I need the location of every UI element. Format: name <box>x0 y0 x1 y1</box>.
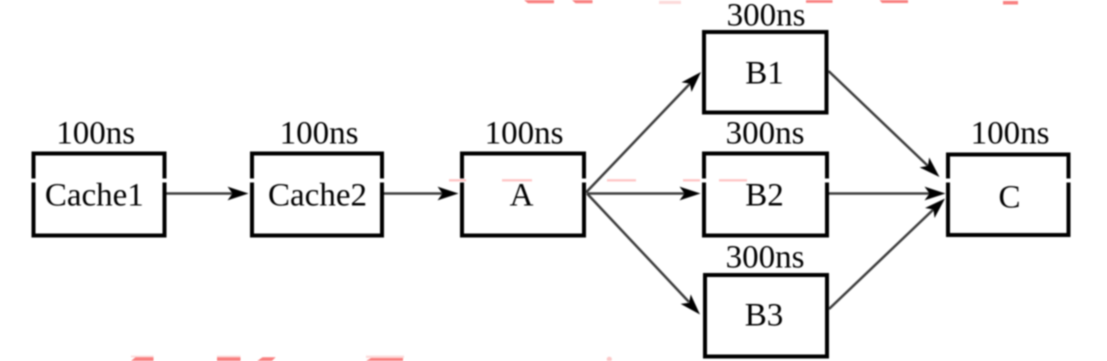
svg-text:A: A <box>510 178 534 214</box>
svg-text:100ns: 100ns <box>971 116 1050 152</box>
svg-text:B1: B1 <box>745 56 784 92</box>
red watermark fragments bottom edge <box>131 356 612 361</box>
svg-text:Cache1: Cache1 <box>45 178 144 214</box>
box C <box>948 155 1069 236</box>
svg-text:300ns: 300ns <box>726 116 805 152</box>
red watermark fragments top edge <box>524 0 1018 5</box>
arrow A to B2 <box>587 192 687 195</box>
svg-text:Cache2: Cache2 <box>268 178 367 214</box>
box Cache2 <box>252 154 382 236</box>
arrow B3 to C <box>829 210 933 310</box>
pink dashed strike line <box>449 179 747 181</box>
svg-text:100ns: 100ns <box>56 116 135 152</box>
box Cache1 <box>34 154 165 236</box>
arrow A to B1 <box>586 84 690 193</box>
arrow A to B3 <box>587 194 689 303</box>
box B2 <box>704 154 827 236</box>
svg-text:300ns: 300ns <box>727 0 806 34</box>
box B1 <box>704 32 827 113</box>
svg-text:100ns: 100ns <box>280 116 359 152</box>
svg-text:B3: B3 <box>745 298 784 334</box>
border gaps on pink strike line <box>31 179 1073 183</box>
arrow Cache2 to A <box>384 192 444 195</box>
arrow Cache1 to Cache2 <box>167 192 235 195</box>
svg-text:C: C <box>998 180 1020 216</box>
svg-text:300ns: 300ns <box>726 240 805 276</box>
arrow B2 to C <box>829 192 931 195</box>
box B3 <box>705 275 827 357</box>
svg-text:B2: B2 <box>745 178 784 214</box>
svg-text:100ns: 100ns <box>485 116 564 152</box>
arrow B1 to C <box>829 71 929 166</box>
box A <box>462 154 584 236</box>
